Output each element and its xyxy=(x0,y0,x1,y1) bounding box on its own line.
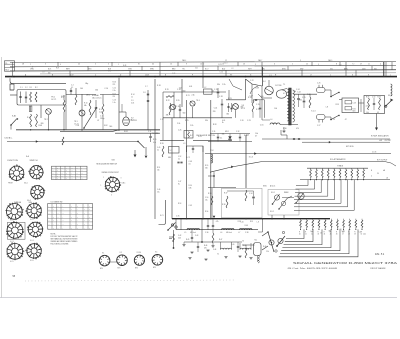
svg-text:L.8: L.8 xyxy=(326,106,328,108)
junction dot x202 xyxy=(201,219,203,242)
switch S.A1 xyxy=(11,119,17,126)
valve V2 envelope xyxy=(123,117,130,126)
svg-text:46: 46 xyxy=(336,234,338,236)
capacitor C16 xyxy=(179,109,181,111)
svg-text:14 12: 14 12 xyxy=(200,63,204,65)
svg-text:C.48: C.48 xyxy=(189,161,192,163)
svg-text:49: 49 xyxy=(354,234,356,236)
svg-text:0.1: 0.1 xyxy=(71,87,73,89)
svg-text:33k: 33k xyxy=(299,100,302,102)
ladder2 resistors xyxy=(300,219,302,220)
bus wire line 3 xyxy=(10,70,396,71)
wire drop x262 to valve xyxy=(262,67,264,86)
wire step up xyxy=(187,146,204,152)
resistor R3 xyxy=(30,114,32,127)
svg-text:V.5: V.5 xyxy=(155,252,157,254)
wire transformer secondary out xyxy=(294,93,318,95)
svg-text:12: 12 xyxy=(225,60,227,62)
capacitor C26 loop top xyxy=(317,88,326,93)
svg-text:455 kc/s: 455 kc/s xyxy=(190,232,196,234)
svg-text:LT: LT xyxy=(310,74,312,76)
svg-text:S.C.3: S.C.3 xyxy=(311,110,315,112)
svg-text:B: B xyxy=(52,74,53,76)
svg-text:10k: 10k xyxy=(157,170,160,172)
svg-text:10: 10 xyxy=(170,64,172,66)
svg-text:V.4: V.4 xyxy=(263,81,265,83)
wire to switches xyxy=(325,89,331,91)
switch S.E1 xyxy=(331,93,339,97)
valve V4 circle xyxy=(265,86,274,95)
switch S.B3 diagonal xyxy=(138,141,145,148)
svg-text:47: 47 xyxy=(32,66,34,68)
svg-text:560: 560 xyxy=(261,96,264,98)
ground T1 xyxy=(282,130,285,132)
wire trunk x245 xyxy=(245,79,247,100)
wire 1.5V line xyxy=(205,153,391,155)
valve V4 anode ellipse xyxy=(276,90,286,98)
table 1 outline xyxy=(52,166,88,179)
svg-text:47: 47 xyxy=(345,119,347,121)
svg-text:C.4: C.4 xyxy=(71,85,74,87)
svg-text:C.27: C.27 xyxy=(317,125,320,127)
svg-text:R.53: R.53 xyxy=(178,203,181,205)
svg-text:R: R xyxy=(305,232,306,234)
arrow y142 xyxy=(329,141,331,143)
svg-text:5: 5 xyxy=(292,64,293,66)
svg-text:TR.2: TR.2 xyxy=(44,119,48,121)
wire attenuator base xyxy=(262,219,264,232)
svg-text:33k: 33k xyxy=(222,133,225,135)
svg-text:R.2: R.2 xyxy=(35,87,38,89)
svg-text:R.F. ATTENUATOR: R.F. ATTENUATOR xyxy=(330,158,346,161)
svg-text:C.35: C.35 xyxy=(176,216,179,218)
svg-text:S.C1: S.C1 xyxy=(160,215,164,217)
upper loops left switch wafer xyxy=(298,193,304,199)
wire trunk bend to switch xyxy=(159,200,166,225)
band oscillator detail box xyxy=(222,188,263,218)
page scan bottom edge xyxy=(0,297,397,299)
wire vertical x229 xyxy=(228,90,230,100)
svg-text:1: 1 xyxy=(118,64,119,66)
svg-text:R.45: R.45 xyxy=(186,239,189,241)
svg-text:P.L: P.L xyxy=(5,63,7,65)
capacitor C24 xyxy=(297,98,300,100)
wire left drop under rail xyxy=(173,230,175,248)
wire y139 long xyxy=(262,138,390,140)
svg-text:HT: HT xyxy=(230,75,232,77)
svg-text:dB: dB xyxy=(383,170,385,172)
nested loops upper xyxy=(296,180,308,186)
svg-text:R: R xyxy=(299,232,300,234)
svg-text:0.1: 0.1 xyxy=(178,159,180,161)
svg-text:JS Cat. No. 6625-99-972-6008: JS Cat. No. 6625-99-972-6008 xyxy=(287,267,337,270)
valve V3 circle xyxy=(233,104,239,110)
svg-text:R.10: R.10 xyxy=(84,103,87,105)
svg-text:R.48: R.48 xyxy=(245,225,248,227)
lower components row xyxy=(221,248,232,249)
valve base V2 xyxy=(117,255,128,266)
svg-text:7 2: 7 2 xyxy=(352,63,354,65)
wire y242 xyxy=(184,241,242,243)
wire RF diagonal xyxy=(210,162,385,173)
resistor R13 vertical xyxy=(62,137,64,145)
wire mid diagonal jog xyxy=(113,130,160,132)
nested loops lower xyxy=(286,229,304,238)
svg-text:4.7k: 4.7k xyxy=(366,105,369,107)
svg-text:33k: 33k xyxy=(329,231,332,233)
switch wafer S.C3 outline square xyxy=(7,222,25,239)
svg-text:S.C.3: S.C.3 xyxy=(249,156,253,158)
small box X1 xyxy=(169,147,180,154)
wire valve interconnect xyxy=(258,94,272,98)
svg-text:16u: 16u xyxy=(205,200,208,202)
svg-text:C.17: C.17 xyxy=(108,71,111,73)
svg-text:C.12: C.12 xyxy=(113,88,116,90)
wire rail risers xyxy=(175,219,177,230)
wire oscillator top rail xyxy=(163,91,226,93)
svg-text:R.4: R.4 xyxy=(34,117,37,119)
capacitor C32 xyxy=(239,136,241,138)
wire transformer top xyxy=(282,89,288,90)
svg-text:S.C.6: S.C.6 xyxy=(30,260,34,262)
svg-text:R.F./A.F. MODULATOR: R.F./A.F. MODULATOR xyxy=(371,135,389,138)
table 2 rows xyxy=(48,206,93,208)
capacitor C5 xyxy=(95,107,97,109)
svg-text:68p: 68p xyxy=(85,83,88,85)
svg-text:M.1: M.1 xyxy=(255,240,258,242)
table 1 rows xyxy=(52,168,88,170)
svg-text:R.21: R.21 xyxy=(186,95,190,97)
valve base V3 xyxy=(134,255,144,265)
svg-text:MODULATION SWITCH: MODULATION SWITCH xyxy=(97,162,118,165)
svg-text:OC.71: OC.71 xyxy=(51,99,56,101)
arrow into modulation switch xyxy=(134,155,137,158)
svg-text:2: 2 xyxy=(30,64,31,66)
switch S.D1 wafer small xyxy=(281,201,285,205)
svg-text:8 1: 8 1 xyxy=(138,64,140,66)
svg-text:1.5k: 1.5k xyxy=(311,231,314,233)
svg-text:C.15: C.15 xyxy=(214,89,218,91)
svg-text:2200p: 2200p xyxy=(100,118,105,120)
svg-text:R.47: R.47 xyxy=(219,239,222,241)
bus right end ticks xyxy=(383,62,385,77)
svg-text:S.B2: S.B2 xyxy=(104,125,108,127)
wire trunk x155 xyxy=(154,79,156,219)
wire osc top verticals xyxy=(162,92,164,140)
switch wafer S.A3 xyxy=(31,186,44,199)
bus vertical dashes xyxy=(57,62,59,66)
svg-text:R.25: R.25 xyxy=(185,120,189,122)
svg-text:C.13: C.13 xyxy=(113,100,116,102)
arrow S.B3 xyxy=(145,156,148,159)
resistor R22 xyxy=(169,103,171,115)
wire y133 to modulation xyxy=(115,132,160,134)
svg-text:2.2k: 2.2k xyxy=(99,112,102,114)
svg-text:R.23: R.23 xyxy=(218,64,221,66)
ground rail left xyxy=(16,129,160,131)
ground ticks lower row xyxy=(188,257,191,259)
switch wafer S.C4 detail xyxy=(28,222,42,236)
svg-text:T.3: T.3 xyxy=(242,241,244,243)
svg-text:TR.4: TR.4 xyxy=(196,100,200,102)
svg-text:C.24: C.24 xyxy=(296,89,300,91)
svg-text:C.31: C.31 xyxy=(212,131,215,133)
svg-text:T.1: T.1 xyxy=(283,84,285,86)
switch wafer S.A2 xyxy=(30,166,43,179)
svg-text:10k: 10k xyxy=(255,133,258,135)
ladder1 resistors xyxy=(310,168,312,169)
svg-text:465 kc/s: 465 kc/s xyxy=(226,232,232,234)
svg-text:0.01: 0.01 xyxy=(179,88,182,90)
wire right of box xyxy=(63,95,65,100)
svg-text:FIG. 5.1: FIG. 5.1 xyxy=(375,252,385,256)
capacitor C3 hatched xyxy=(29,106,32,112)
svg-text:C.52: C.52 xyxy=(178,156,181,158)
svg-text:R.43: R.43 xyxy=(243,245,246,247)
transformer T3 coil pair xyxy=(240,248,251,249)
svg-text:R.48: R.48 xyxy=(39,125,43,127)
svg-text:C.47: C.47 xyxy=(178,181,181,183)
svg-text:S.D.2: S.D.2 xyxy=(270,211,274,213)
svg-text:R.3: R.3 xyxy=(27,117,30,119)
capacitor C18 xyxy=(221,103,223,105)
switch S.E2 xyxy=(331,116,339,120)
svg-text:820: 820 xyxy=(228,139,231,141)
svg-text:S.C.3: S.C.3 xyxy=(10,241,14,243)
svg-text:470: 470 xyxy=(204,248,207,250)
inductor L7 humps xyxy=(240,228,253,229)
svg-text:TR.3: TR.3 xyxy=(74,121,78,123)
svg-text:10k: 10k xyxy=(246,134,249,136)
svg-text:OUTPUT: OUTPUT xyxy=(385,140,392,142)
svg-text:470: 470 xyxy=(296,128,299,130)
svg-text:R.23: R.23 xyxy=(61,96,65,98)
svg-text:3: 3 xyxy=(255,64,256,66)
svg-text:L.8: L.8 xyxy=(42,72,44,74)
wire to can xyxy=(242,244,255,246)
svg-text:R.55: R.55 xyxy=(205,165,208,167)
svg-text:R.15: R.15 xyxy=(250,221,253,223)
table 2 outline xyxy=(48,204,93,230)
svg-text:R.19: R.19 xyxy=(165,89,169,91)
wire y142 segment xyxy=(302,141,390,143)
svg-text:25u: 25u xyxy=(157,192,160,194)
resistor R36 xyxy=(211,196,213,205)
attenuator box 1 xyxy=(342,98,359,113)
svg-text:S.C.4: S.C.4 xyxy=(30,240,34,242)
transformer T1 secondary winding xyxy=(293,90,295,122)
svg-text:L.8: L.8 xyxy=(231,68,233,70)
svg-text:3.3k: 3.3k xyxy=(189,188,192,190)
svg-text:C.41: C.41 xyxy=(214,107,218,109)
svg-text:20: 20 xyxy=(152,64,154,66)
table 1 columns xyxy=(55,166,57,179)
svg-text:10k: 10k xyxy=(293,91,296,93)
svg-text:220: 220 xyxy=(213,111,216,113)
svg-text:C.8: C.8 xyxy=(143,92,146,94)
switch wafer S.A1 xyxy=(9,166,23,180)
svg-text:68: 68 xyxy=(377,112,379,114)
svg-text:V.2: V.2 xyxy=(131,118,134,120)
wire box1 to box2 xyxy=(359,102,365,104)
svg-text:0.1: 0.1 xyxy=(212,91,214,93)
attenuator box 2 xyxy=(364,96,385,114)
inductor L6 humps xyxy=(222,228,235,229)
svg-text:4: 4 xyxy=(380,63,381,65)
resistor R1 xyxy=(30,92,32,102)
inductor blob x211 xyxy=(211,154,212,163)
svg-text:R.26: R.26 xyxy=(160,143,164,145)
svg-text:C.17: C.17 xyxy=(160,119,164,121)
svg-text:13: 13 xyxy=(243,64,245,66)
svg-text:2.2k: 2.2k xyxy=(178,129,181,131)
svg-text:1.5u: 1.5u xyxy=(113,102,116,104)
svg-text:0.05: 0.05 xyxy=(131,103,134,105)
svg-text:33k: 33k xyxy=(217,84,220,86)
resistor R2 xyxy=(35,92,37,102)
wire TR3 vertical xyxy=(81,94,83,131)
svg-text:C.40: C.40 xyxy=(231,244,234,246)
svg-text:R.29: R.29 xyxy=(56,68,59,70)
resistor R5 xyxy=(63,100,65,112)
svg-text:R.23: R.23 xyxy=(228,98,232,100)
junction dots ground rail xyxy=(30,129,31,130)
wire mid horizontal y131 xyxy=(60,130,113,132)
svg-text:1k: 1k xyxy=(222,122,224,124)
svg-text:S.C.1: S.C.1 xyxy=(10,220,14,222)
transformer bottom coil xyxy=(270,123,280,125)
transformer T1 primary winding xyxy=(287,89,289,121)
svg-text:47: 47 xyxy=(342,234,344,236)
svg-text:33k: 33k xyxy=(226,113,229,115)
svg-text:2.2k: 2.2k xyxy=(177,123,180,125)
svg-text:6: 6 xyxy=(95,64,96,66)
svg-text:C.42: C.42 xyxy=(178,235,181,237)
second rail y229.7 xyxy=(176,229,258,231)
svg-text:C.38: C.38 xyxy=(245,232,248,234)
wire under L3 xyxy=(160,139,184,141)
wire top left xyxy=(10,84,14,90)
switch S.D wafer mid xyxy=(274,195,279,200)
rail junction dots xyxy=(186,218,188,220)
svg-text:C.36: C.36 xyxy=(205,232,208,234)
box1 component R31 xyxy=(345,107,352,110)
switch detail box right xyxy=(268,190,299,216)
svg-text:41: 41 xyxy=(305,234,307,236)
ladder1 bottom line xyxy=(300,179,390,181)
resistor R38 in box xyxy=(226,196,228,208)
svg-text:820: 820 xyxy=(353,111,356,113)
svg-text:1k: 1k xyxy=(131,97,133,99)
svg-text:S.C2: S.C2 xyxy=(186,157,190,159)
wire component row y141 xyxy=(208,141,252,143)
switch detail extra contacts xyxy=(275,250,277,252)
svg-text:C.28: C.28 xyxy=(353,102,356,104)
transistor TR4 circle xyxy=(190,101,195,106)
transformer T1 core xyxy=(289,88,292,125)
resistor R24 xyxy=(252,100,254,112)
svg-text:E: E xyxy=(165,75,166,77)
ground arrow under box2 xyxy=(375,128,378,131)
wire switch to ground xyxy=(10,125,12,130)
capacitor pair on y139 xyxy=(293,138,295,140)
svg-text:2.2k: 2.2k xyxy=(266,251,269,253)
svg-text:S.D.1: S.D.1 xyxy=(271,192,275,194)
capacitor pair x228 xyxy=(228,103,230,112)
main bottom rail heavy xyxy=(172,218,330,220)
svg-text:8u: 8u xyxy=(178,184,180,186)
wire drop to function circuit xyxy=(10,78,66,83)
svg-text:C.33: C.33 xyxy=(272,123,276,125)
svg-text:CV.2136: CV.2136 xyxy=(275,85,281,87)
svg-text:4.7k: 4.7k xyxy=(153,142,156,144)
arrow RF diagonal xyxy=(231,166,233,169)
svg-text:R.18: R.18 xyxy=(157,85,161,87)
svg-text:FRONT: FRONT xyxy=(8,183,13,185)
svg-text:L.3: L.3 xyxy=(183,143,185,145)
wire can drop xyxy=(257,256,259,263)
box1 component C28 xyxy=(345,101,352,104)
svg-text:R.51: R.51 xyxy=(157,167,160,169)
svg-text:18: 18 xyxy=(22,64,24,66)
capacitor C23 xyxy=(255,99,257,101)
svg-text:S.A1: S.A1 xyxy=(12,115,16,118)
ground x184 xyxy=(182,244,185,246)
resistor R41 below second rail xyxy=(212,230,214,233)
svg-text:0.01: 0.01 xyxy=(195,67,198,69)
svg-text:MR.2: MR.2 xyxy=(86,95,90,97)
svg-text:C.16: C.16 xyxy=(341,230,344,232)
table 2 columns xyxy=(51,204,53,230)
svg-text:V.3: V.3 xyxy=(242,105,245,107)
svg-text:C.16: C.16 xyxy=(260,124,264,126)
transistor TR5 circle xyxy=(170,104,175,109)
svg-text:WHT: WHT xyxy=(66,69,70,71)
svg-text:R: R xyxy=(354,232,355,234)
svg-text:NOTE:-: NOTE:- xyxy=(51,234,57,236)
svg-text:560: 560 xyxy=(109,126,112,128)
svg-text:C.1: C.1 xyxy=(20,87,23,89)
ladder1 top line xyxy=(307,167,368,169)
svg-text:C.45: C.45 xyxy=(157,147,160,149)
svg-text:0.01: 0.01 xyxy=(269,75,272,77)
wire osc right vertical xyxy=(264,100,266,118)
wire valve grid drop xyxy=(261,86,263,120)
switch S.C1 contacts xyxy=(171,224,173,226)
inductor L3 box xyxy=(184,131,193,139)
svg-text:560: 560 xyxy=(183,113,186,115)
svg-text:4.7k: 4.7k xyxy=(216,221,219,223)
capacitor pair x178 xyxy=(177,161,179,163)
svg-text:47: 47 xyxy=(255,135,257,137)
svg-text:CIRCUIT DIAGRM: CIRCUIT DIAGRM xyxy=(370,267,386,270)
svg-text:270: 270 xyxy=(113,84,116,86)
switch wafer S.B1 detail xyxy=(105,177,119,191)
svg-text:R.15: R.15 xyxy=(153,139,156,141)
svg-text:680: 680 xyxy=(168,157,171,159)
svg-text:5.6k: 5.6k xyxy=(366,112,369,114)
bus drop junction dots xyxy=(13,76,15,78)
svg-text:560: 560 xyxy=(183,90,186,92)
svg-text:T.2: T.2 xyxy=(217,254,219,256)
arrow 1.5V line xyxy=(254,152,256,155)
switch wafer S.C3 detail xyxy=(7,223,23,239)
svg-text:FUNCTION: FUNCTION xyxy=(8,160,19,162)
switch arm long diagonal xyxy=(84,107,97,128)
svg-text:X.1: X.1 xyxy=(170,150,173,152)
wire transformer bottom out xyxy=(280,124,298,126)
svg-text:T PADS: T PADS xyxy=(337,165,344,168)
